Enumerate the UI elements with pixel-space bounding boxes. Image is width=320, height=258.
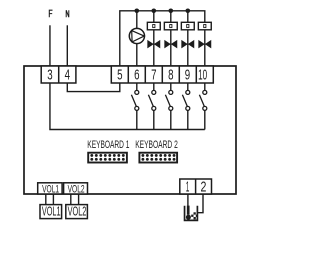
svg-text:4: 4 [65, 67, 70, 83]
svg-text:1: 1 [186, 179, 190, 196]
svg-text:VOL2: VOL2 [68, 183, 85, 195]
svg-text:3: 3 [47, 67, 52, 83]
svg-text:KEYBOARD 1: KEYBOARD 1 [87, 139, 129, 151]
svg-text:6: 6 [134, 67, 139, 83]
svg-text:5: 5 [117, 67, 122, 83]
svg-text:10: 10 [198, 67, 207, 83]
svg-text:VOL1: VOL1 [42, 205, 61, 219]
svg-text:KEYBOARD 2: KEYBOARD 2 [135, 139, 178, 151]
svg-text:8: 8 [168, 67, 173, 83]
svg-text:9: 9 [185, 67, 190, 83]
svg-text:VOL1: VOL1 [42, 183, 59, 195]
svg-text:2: 2 [200, 179, 206, 196]
svg-text:VOL2: VOL2 [68, 205, 87, 219]
svg-text:7: 7 [151, 67, 156, 83]
